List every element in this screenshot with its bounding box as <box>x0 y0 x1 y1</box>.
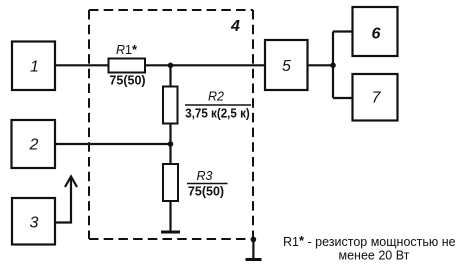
wire: block 3 arrow run <box>55 178 71 223</box>
ground terminal bar <box>246 258 262 261</box>
block 6 <box>353 7 398 56</box>
svg-text:2: 2 <box>29 137 39 154</box>
resistor R2 <box>163 87 178 124</box>
wire: block 2 to node B <box>55 143 171 145</box>
shield enclosure (dashed box) 4 <box>89 10 253 239</box>
wire: node C vertical branch <box>332 32 334 99</box>
wire: R1 to block 5 <box>145 64 265 66</box>
svg-text:6: 6 <box>372 25 381 42</box>
svg-text:1: 1 <box>30 59 39 76</box>
svg-text:3,75 к(2,5 к): 3,75 к(2,5 к) <box>185 107 250 121</box>
fraction bar of R3 label <box>187 183 228 185</box>
junction: shield to ground <box>251 237 257 243</box>
junction node A (R1 / R2 / block 5) <box>168 63 174 69</box>
svg-text:75(50): 75(50) <box>109 74 145 88</box>
wire: branch to block 6 <box>333 30 353 32</box>
wire: node A down to R2 <box>169 65 171 86</box>
junction node B (block 2 / R2-R3) <box>168 141 174 147</box>
block 1 <box>12 42 55 91</box>
block 3 <box>12 198 55 245</box>
wire: ground lead <box>252 240 254 259</box>
junction node C (block 5 / 6 / 7) <box>330 63 336 69</box>
terminal bar below R3 <box>161 231 180 234</box>
svg-text:менее 20 Вт: менее 20 Вт <box>339 248 410 262</box>
svg-text:R1*: R1* <box>116 42 138 57</box>
resistor R1 <box>109 59 146 73</box>
svg-text:R3: R3 <box>197 169 213 183</box>
svg-text:3: 3 <box>30 215 39 232</box>
svg-text:5: 5 <box>282 58 291 75</box>
wire: block 5 to node C <box>308 64 334 66</box>
wire: R2 to R3 <box>169 124 171 165</box>
svg-text:R2: R2 <box>208 89 224 103</box>
resistor R3 <box>163 164 178 201</box>
wire: R3 down to terminal <box>169 201 171 231</box>
svg-text:4: 4 <box>230 18 240 35</box>
svg-text:R1* - резистор мощностью не: R1* - резистор мощностью не <box>283 233 456 249</box>
fraction bar of R2 label <box>185 104 251 106</box>
wire: branch to block 7 <box>333 97 353 99</box>
block 2 <box>12 120 56 168</box>
wire: block 1 to R1 <box>55 64 109 66</box>
arrowhead of block 3 arrow <box>65 177 77 188</box>
block 5 <box>265 40 308 90</box>
block 7 <box>353 74 398 121</box>
svg-text:75(50): 75(50) <box>188 184 224 198</box>
svg-text:7: 7 <box>372 90 382 107</box>
